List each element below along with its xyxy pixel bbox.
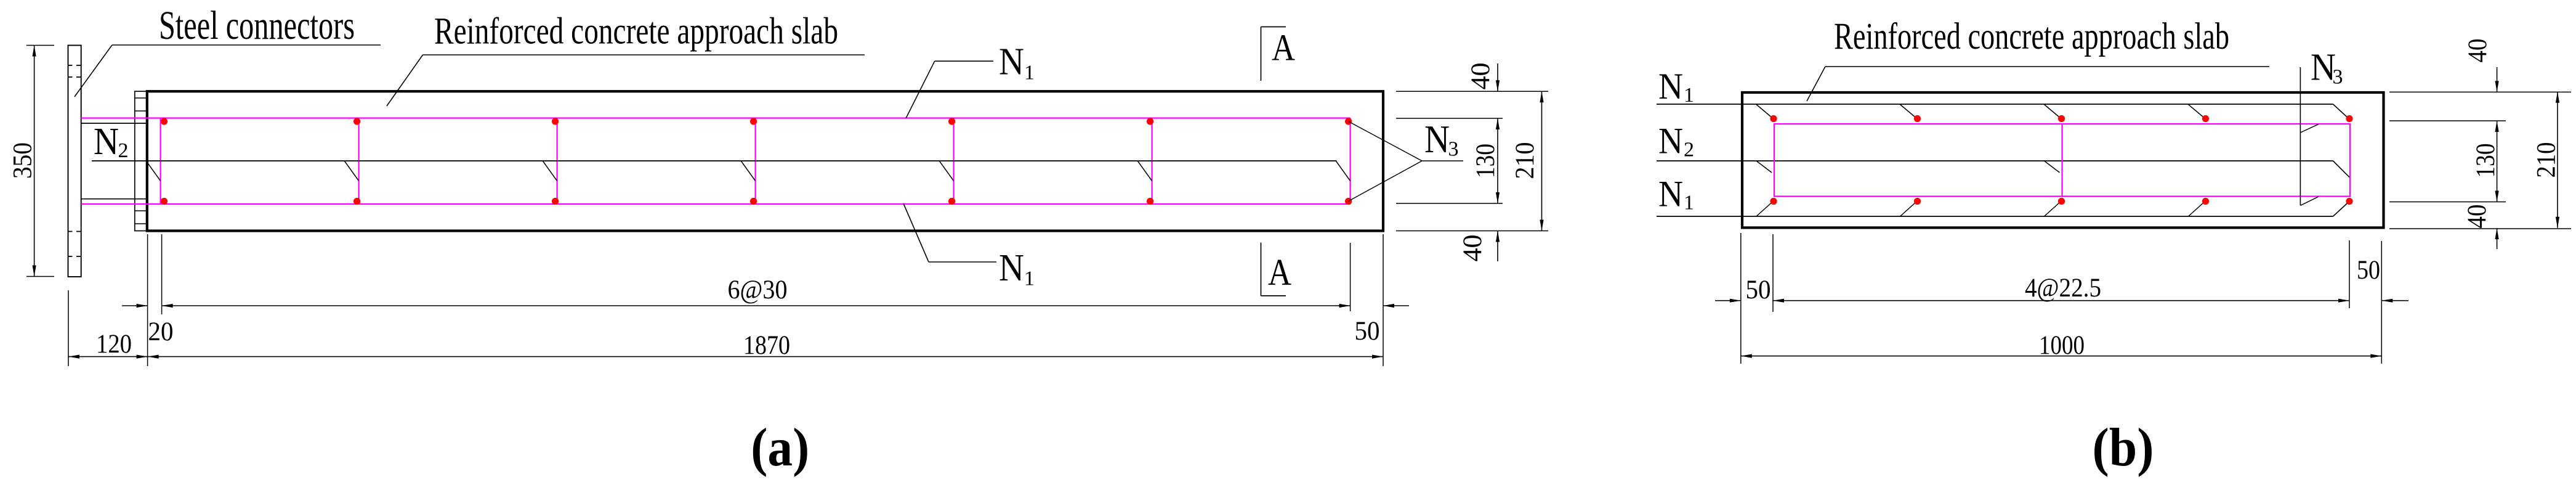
N3 bar dot top, column 4 (fig a)	[750, 118, 757, 125]
svg-text:1000: 1000	[2039, 331, 2085, 360]
svg-text:40: 40	[1458, 235, 1487, 262]
section mark A top (fig a)	[1261, 27, 1296, 81]
stirrup N3 vertical, column 5 (fig a)	[953, 118, 954, 205]
svg-text:210: 210	[2532, 142, 2561, 178]
steel anchor plate (fig a)	[68, 46, 81, 277]
N1 bar dot top, column 5 (fig b)	[2346, 115, 2352, 122]
N1 top hook at column 4 (fig b)	[2189, 105, 2204, 118]
dimension 4@22.5 (fig b)	[1773, 274, 2349, 303]
svg-text:Reinforced concrete approach s: Reinforced concrete approach slab	[434, 11, 838, 52]
dimension 50 left (fig b)	[1715, 276, 1771, 304]
N3 bar dot bottom, column 6 (fig a)	[1147, 198, 1153, 205]
N3 bar dot bottom, column 5 (fig a)	[948, 198, 955, 205]
stirrup N3 vertical, column 6 (fig a)	[1151, 118, 1152, 205]
N1 bottom hook at column 2 (fig b)	[1900, 203, 1916, 217]
N2 bar hook tick at column 1 (fig a)	[147, 161, 161, 181]
rebar N2 mid bar line (fig b)	[1657, 160, 2333, 161]
extension lines right side (fig a)	[1396, 91, 1548, 231]
svg-text:Reinforced concrete approach s: Reinforced concrete approach slab	[1834, 16, 2229, 57]
dimension 1000 (fig b)	[1741, 331, 2382, 360]
label N2 (fig a)	[94, 121, 129, 163]
N1 bottom hook at column 4 (fig b)	[2189, 203, 2204, 217]
svg-text:A: A	[1268, 252, 1291, 293]
svg-text:3: 3	[1448, 138, 1459, 161]
dimension 20 (fig a)	[122, 304, 174, 346]
svg-text:1: 1	[1024, 267, 1035, 290]
svg-text:N: N	[999, 41, 1024, 83]
dimension 210 (fig a)	[1511, 91, 1544, 231]
extension line slab right (fig b)	[2381, 241, 2382, 364]
label N1 bottom (fig b)	[1658, 173, 1694, 214]
svg-text:(b): (b)	[2093, 418, 2154, 478]
label "Reinforced concrete approach slab" with leader (fig b)	[1807, 16, 2269, 101]
stirrup N3 vertical, column 2 (fig a)	[358, 118, 359, 205]
label N2 (fig b)	[1658, 121, 1694, 161]
N2 mid hook at column 3 (fig b)	[2045, 161, 2060, 173]
N2 bar hook tick at column 3 (fig a)	[543, 161, 557, 181]
N1 bar dot top, column 3 (fig b)	[2058, 115, 2065, 122]
N1 top hook at column 2 (fig b)	[1900, 105, 1916, 118]
extension line at plate left (fig a)	[68, 290, 69, 366]
svg-text:120: 120	[96, 330, 132, 359]
N3 bar dot bottom, column 3 (fig a)	[552, 198, 559, 205]
svg-text:130: 130	[1471, 144, 1500, 178]
svg-text:350: 350	[9, 142, 38, 179]
svg-text:N: N	[999, 247, 1024, 289]
N3 bar dot top, column 3 (fig a)	[552, 118, 559, 125]
svg-text:4@22.5: 4@22.5	[2025, 274, 2101, 303]
svg-text:N: N	[1658, 121, 1683, 161]
svg-text:50: 50	[2357, 256, 2380, 285]
svg-text:50: 50	[1355, 317, 1380, 346]
N3 bar dot top, column 6 (fig a)	[1147, 118, 1153, 125]
stirrup N3 vertical, column 7 (fig a)	[1350, 118, 1351, 205]
N1 bar dot top, column 1 (fig b)	[1770, 115, 1777, 122]
label N1 top with leader (fig a)	[906, 41, 1035, 118]
dimension 40 top (fig b)	[2463, 39, 2499, 92]
svg-text:N: N	[1658, 66, 1683, 107]
dimension 40 bottom (fig b)	[2463, 205, 2499, 250]
svg-text:1: 1	[1684, 191, 1694, 214]
stirrup N3 vertical, column 3 (fig a)	[556, 118, 557, 205]
label N1 top (fig b)	[1658, 66, 1694, 107]
N3 bar dot top, column 7 (fig a)	[1345, 118, 1352, 125]
svg-text:(a): (a)	[751, 418, 809, 478]
mid-depth line / N2 bar line (fig a)	[92, 160, 1337, 161]
stirrup N3 vertical, column 1 (fig a)	[160, 118, 161, 205]
svg-text:A: A	[1272, 27, 1295, 68]
dimension 6@30 (fig a)	[162, 276, 1351, 308]
N1 bar dot bottom, column 5 (fig b)	[2346, 198, 2352, 205]
steel connector bars (black) from plate to slab (fig a)	[81, 123, 147, 199]
label "Reinforced concrete approach slab" with leader (fig a)	[387, 11, 865, 106]
N1 bottom hook at column 3 (fig b)	[2045, 203, 2060, 217]
N1 bar dot top, column 4 (fig b)	[2202, 115, 2209, 122]
embedded end strip at slab left edge (fig a)	[135, 91, 147, 231]
svg-text:1870: 1870	[743, 331, 790, 360]
N3 bar dot top, column 2 (fig a)	[353, 118, 360, 125]
rebar N2 bottom bar (magenta, fig a)	[81, 203, 1351, 205]
svg-text:N: N	[1658, 173, 1683, 214]
N3 bar dot bottom, column 7 (fig a)	[1345, 198, 1352, 205]
svg-text:Steel connectors: Steel connectors	[159, 3, 355, 48]
rebar N1 top bar line (fig b)	[1657, 104, 2333, 105]
N1 top hook at column 3 (fig b)	[2045, 105, 2060, 118]
svg-text:N: N	[1424, 118, 1450, 161]
N2 bar hook tick at column 5 (fig a)	[940, 161, 954, 181]
N3 bar dot bottom, column 2 (fig a)	[353, 198, 360, 205]
dimension 50 (fig a)	[1355, 304, 1410, 346]
N2 end hook (fig b)	[2333, 161, 2350, 178]
stirrup rectangle (magenta, fig b)	[1774, 124, 2350, 197]
N1 bar dot bottom, column 2 (fig b)	[1914, 198, 1921, 205]
extension line first stirrup (fig b)	[1772, 234, 1774, 312]
extension line last stirrup (fig b)	[2349, 240, 2350, 308]
svg-text:1: 1	[1024, 62, 1035, 84]
extension line slab left (fig b)	[1740, 233, 1742, 364]
concrete slab outline (fig a)	[147, 91, 1383, 231]
svg-text:210: 210	[1511, 142, 1540, 179]
N2 bar hook tick at column 6 (fig a)	[1138, 161, 1152, 181]
dimension 40 top (fig a)	[1466, 63, 1500, 92]
section mark A bottom (fig a)	[1261, 243, 1292, 296]
extension line last stirrup (fig a)	[1350, 243, 1351, 311]
dimension 350 (plate height, fig a)	[9, 46, 55, 277]
N3 bar dot bottom, column 1 (fig a)	[161, 198, 168, 205]
dimension 130 (fig b)	[2471, 121, 2500, 202]
dimension 50 right (fig b)	[2357, 256, 2408, 303]
svg-text:2: 2	[118, 139, 129, 162]
N1 bar dot bottom, column 1 (fig b)	[1770, 198, 1777, 205]
label N1 bottom with leader (fig a)	[903, 203, 1035, 290]
extension line slab right (fig a)	[1383, 234, 1384, 366]
N1 top hook at column 1 (fig b)	[1756, 105, 1772, 118]
dimension 120 (fig a)	[68, 330, 148, 359]
label "Steel connectors" with leader (fig a)	[75, 3, 381, 97]
N3 bar dot top, column 1 (fig a)	[161, 118, 168, 125]
dimension 130 (fig a)	[1471, 118, 1500, 203]
svg-text:6@30: 6@30	[728, 276, 788, 304]
svg-text:50: 50	[1746, 276, 1771, 304]
svg-text:2: 2	[1684, 139, 1694, 161]
label N3 with leader (fig b)	[2300, 47, 2343, 206]
N2 bar hook tick at column 4 (fig a)	[741, 161, 756, 181]
N1 bottom end hook (fig b)	[2333, 202, 2349, 217]
svg-text:40: 40	[1466, 63, 1495, 90]
N2 mid hook at column 1 (fig b)	[1756, 161, 1772, 173]
concrete slab outline (fig b)	[1742, 92, 2384, 227]
svg-text:130: 130	[2471, 144, 2500, 178]
extension line first stirrup (fig a)	[161, 234, 163, 314]
svg-text:3: 3	[2333, 66, 2343, 89]
svg-text:20: 20	[148, 317, 174, 346]
N1 bar dot top, column 2 (fig b)	[1914, 115, 1921, 122]
svg-text:N: N	[94, 121, 119, 163]
N1 top end hook (fig b)	[2333, 104, 2349, 119]
svg-text:40: 40	[2463, 205, 2492, 229]
extension line at slab left (fig a)	[147, 234, 148, 366]
dimension 40 bottom (fig a)	[1458, 231, 1500, 262]
N3 bar dot bottom, column 4 (fig a)	[750, 198, 757, 205]
N2 bar hook tick at column 2 (fig a)	[345, 161, 359, 181]
label N3 with double leader (fig a)	[1349, 118, 1463, 201]
stirrup mid vertical (magenta, fig b)	[2061, 124, 2062, 197]
stirrup N3 vertical, column 4 (fig a)	[754, 118, 756, 205]
N1 bar dot bottom, column 3 (fig b)	[2058, 198, 2065, 205]
rebar N1 bottom bar line (fig b)	[1657, 216, 2333, 217]
svg-text:1: 1	[1684, 84, 1694, 107]
N3 bar dot top, column 5 (fig a)	[948, 118, 955, 125]
N1 bottom hook at column 1 (fig b)	[1756, 203, 1772, 217]
svg-text:40: 40	[2463, 39, 2492, 63]
rebar N2 top bar (magenta, fig a)	[81, 117, 1351, 118]
dimension 210 (fig b)	[2532, 92, 2561, 228]
extension lines right side (fig b)	[2389, 92, 2571, 229]
dimension 1870 (fig a)	[148, 331, 1383, 360]
N1 bar dot bottom, column 4 (fig b)	[2202, 198, 2209, 205]
N2 bar hook tick at column 7 (fig a)	[1336, 161, 1351, 181]
